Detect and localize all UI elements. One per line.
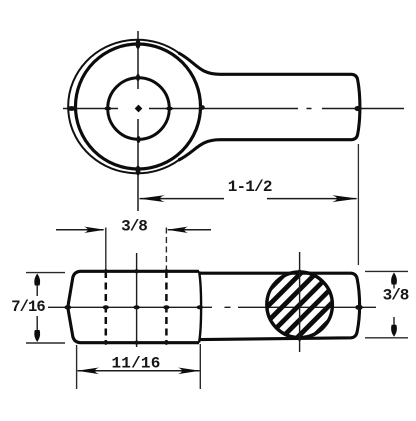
bottom view: flat-to-round transition line [199, 271, 201, 342]
dimension 7/16: top extension line [26, 272, 65, 274]
bottom view: section hatching [212, 217, 388, 393]
dimension 7/16: up arrowhead and stem [36, 278, 38, 296]
dimension 3/8 top: right extension line (dash-dot) [165, 228, 167, 271]
top view: centerline crossing blobs [67, 39, 362, 176]
top view: eye outer thick circle [76, 44, 201, 169]
svg-text:1-1/2: 1-1/2 [228, 178, 272, 196]
dimension 7/16: bottom extension line [26, 342, 65, 344]
svg-text:3/8: 3/8 [383, 287, 409, 305]
bottom view: centerline crossing blobs [64, 269, 362, 345]
top view: center diamond mark [135, 105, 143, 113]
dimension 1-1/2: dimension line [140, 198, 357, 200]
dimension 1-1/2: left arrowhead [139, 195, 165, 202]
dimension 3/8 top: left-pointing arrowhead [167, 227, 188, 233]
dimension 3/8 top: dimension lines [56, 229, 211, 231]
top view: hole circle [108, 78, 170, 140]
bottom view: horizontal centerline [48, 306, 376, 308]
dimension 1-1/2: right arrowhead [332, 195, 358, 202]
bottom view: hidden hole line left [105, 271, 108, 341]
bottom view: round shank outline with rounded end [200, 273, 360, 339]
dimension 11/16: right arrowhead [178, 368, 200, 375]
dimension 3/8 top: left extension line [105, 228, 107, 271]
svg-text:3/8: 3/8 [121, 218, 147, 236]
dimension 3/8 top: right-pointing arrowhead [84, 227, 105, 233]
bottom view: hidden hole line right [165, 271, 168, 341]
svg-text:11/16: 11/16 [111, 355, 160, 373]
dimension 11/16: right extension line [199, 344, 201, 389]
dimension 11/16: left arrowhead [77, 368, 99, 375]
dimension 3/8 right: up arrowhead and stem [393, 283, 395, 289]
bottom view: section circle (hatched) [267, 272, 333, 338]
dimension 3/8 right: bottom extension line [365, 337, 408, 339]
dimension 3/8 right: down arrowhead and stem [393, 317, 395, 327]
dimension 1-1/2: right extension line [357, 144, 359, 265]
bottom view: section circle vertical centerline [299, 252, 301, 352]
bottom view: flat eye portion outline [68, 271, 199, 342]
dimension 11/16: dimension line [78, 370, 200, 372]
top view: horizontal centerline [63, 108, 404, 110]
top view: eye outer thin circle [68, 40, 179, 174]
dimension 7/16: down arrowhead and stem [36, 316, 38, 338]
top view: vertical centerline [137, 31, 139, 211]
top view: shank outline with tangent fillets and rounded end [178, 53, 360, 160]
bottom view: eye vertical centerline [136, 253, 138, 347]
svg-text:7/16: 7/16 [11, 298, 45, 316]
dimension 3/8 right: top extension line [365, 270, 408, 272]
dimension 11/16: left extension line [76, 345, 78, 389]
